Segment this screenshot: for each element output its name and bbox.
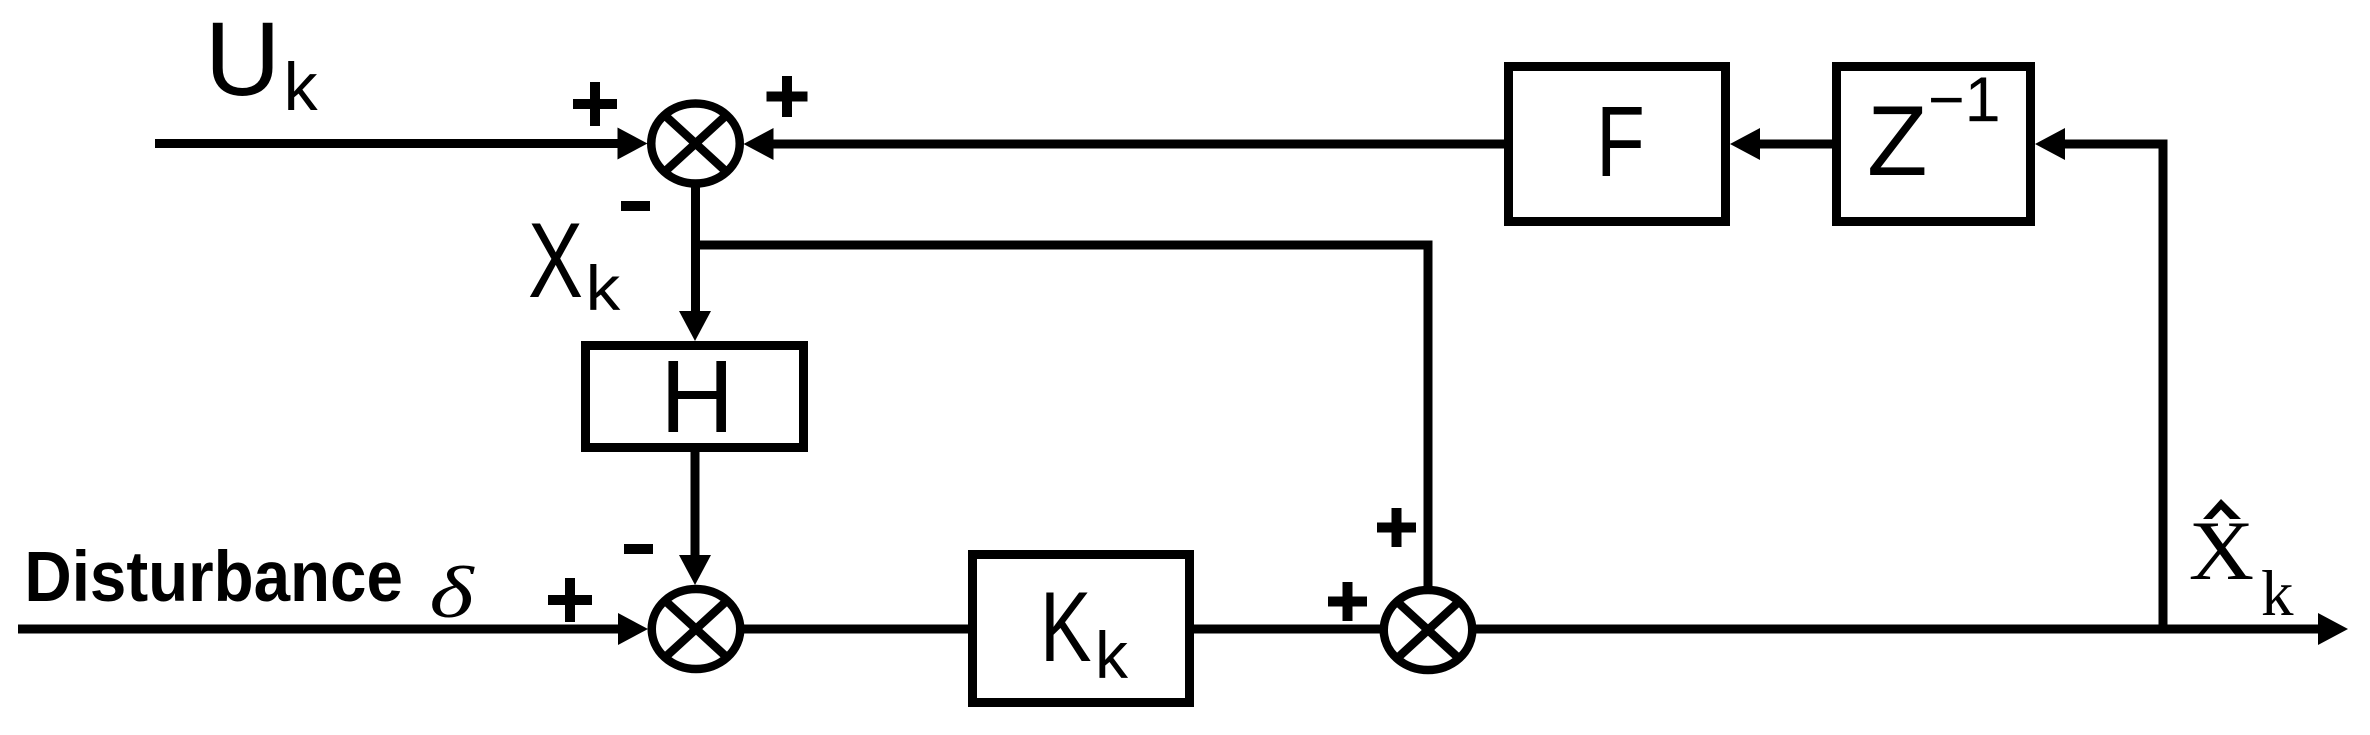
- wire: output line to the right edge: [1474, 625, 2320, 634]
- plus sign (Xk branch polarity, above S3): [1377, 508, 1416, 547]
- block Z^-1 (unit delay): [1837, 65, 2031, 222]
- svg-text:K: K: [1040, 572, 1092, 682]
- wire: Uk input line into summing junction S1: [155, 139, 620, 148]
- wire: feedback riser (right vertical): [2159, 140, 2168, 630]
- svg-text:δ: δ: [429, 553, 475, 633]
- svg-text:k: k: [586, 254, 622, 324]
- svg-text:F: F: [1596, 87, 1645, 199]
- label Xk (state signal): [528, 202, 621, 325]
- block F: [1509, 67, 1726, 222]
- wire: feedback riser into Z^-1: [2063, 140, 2163, 149]
- plus sign (disturbance polarity, left of S2): [548, 578, 592, 622]
- label X-hat k (estimated state): [2189, 499, 2294, 630]
- summing junction S2: [652, 589, 741, 669]
- arrowhead into F: [1730, 128, 1760, 160]
- svg-text:k: k: [2261, 558, 2294, 630]
- block Kk (Kalman gain): [973, 555, 1190, 703]
- wire: H output down into S2: [691, 452, 700, 557]
- svg-text:H: H: [660, 339, 734, 454]
- wire: S2 output to block Kk: [740, 625, 971, 634]
- svg-text:−1: −1: [1928, 65, 2000, 135]
- svg-text:k: k: [1095, 618, 1129, 692]
- arrowhead into S2 from top: [679, 555, 711, 585]
- wire: Z^-1 output into block F: [1758, 140, 1832, 149]
- summing junction S1: [651, 104, 740, 184]
- plus sign (Uk input polarity, above-left of S1): [573, 82, 617, 126]
- arrowhead into H: [679, 311, 711, 341]
- wire: feedback from block F into S1: [771, 140, 1504, 149]
- wire: disturbance input line into S2: [18, 625, 620, 634]
- label Uk (input signal): [205, 1, 319, 125]
- block H: [586, 339, 804, 454]
- wire: S1 output down toward block H: [691, 185, 700, 313]
- svg-text:X: X: [2189, 503, 2254, 597]
- svg-text:X: X: [528, 202, 583, 321]
- summing junction S3: [1384, 590, 1473, 670]
- arrowhead into S1 from right: [744, 128, 774, 160]
- arrowhead into S1 from left: [618, 128, 648, 160]
- minus sign (below-left of S1): [621, 201, 650, 211]
- plus sign (feedback polarity, above-right of S1): [767, 76, 808, 117]
- arrowhead at output: [2318, 613, 2348, 645]
- plus sign (Kk path polarity, left of S3): [1328, 582, 1367, 621]
- wire: Xk branch vertical down into S3: [1424, 241, 1433, 588]
- svg-text:U: U: [205, 1, 281, 118]
- wire: Kk output to S3: [1194, 625, 1386, 634]
- svg-text:Z: Z: [1867, 85, 1927, 196]
- svg-text:Disturbance: Disturbance: [24, 538, 402, 617]
- minus sign (H path polarity, above-left of S2): [624, 544, 653, 554]
- arrowhead into S2 from left: [618, 613, 648, 645]
- svg-text:k: k: [284, 49, 319, 125]
- arrowhead into Z^-1: [2035, 128, 2065, 160]
- wire: Xk branch horizontal to S3: [691, 241, 1433, 250]
